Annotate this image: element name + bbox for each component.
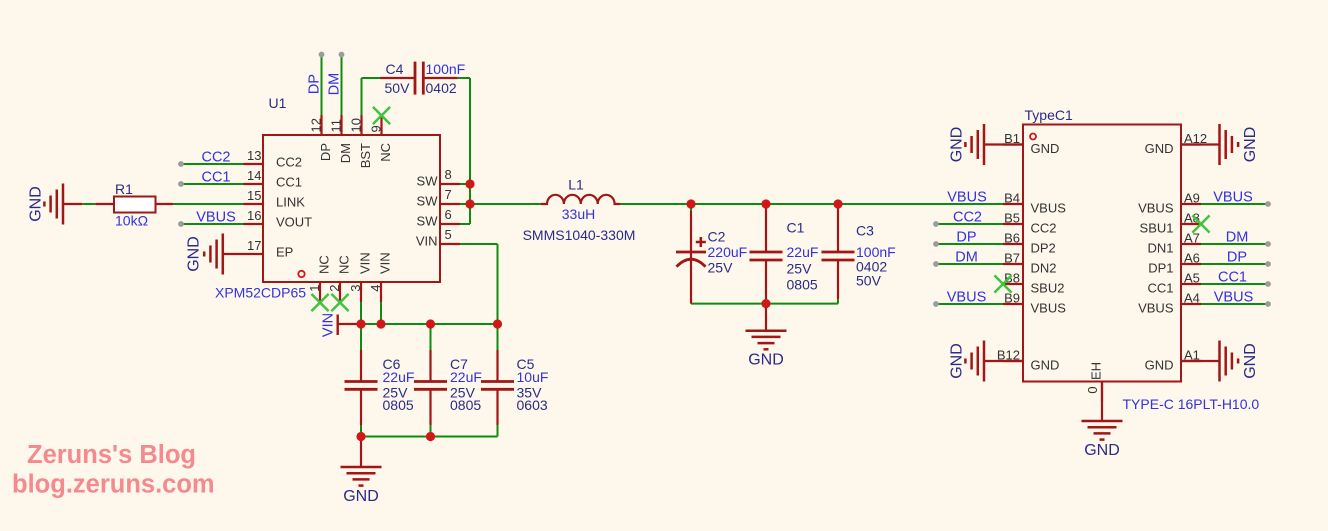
- wire VBUS to U1 pin 16 VOUT: [181, 223, 244, 225]
- svg-text:DM: DM: [338, 143, 353, 163]
- U1 bottom pin names NC NC VIN VIN: [317, 252, 393, 274]
- capacitor C5 10uF: [481, 324, 514, 437]
- C6 attr 25V: [383, 385, 409, 401]
- net label VIN anchor: [337, 315, 339, 336]
- svg-text:SW: SW: [417, 174, 439, 189]
- net label CC1 at U1 pin 14: [201, 170, 230, 186]
- svg-text:NC: NC: [317, 255, 332, 274]
- wire L1 to C2/C1/C3 bank and TypeC1 B4 VBUS: [621, 203, 1003, 205]
- svg-text:6: 6: [445, 207, 452, 222]
- C4 designator: [386, 61, 404, 77]
- ground at TypeC1 pin A1: [1181, 341, 1259, 382]
- net label VBUS at TypeC1 A4: [1214, 290, 1254, 306]
- svg-text:33uH: 33uH: [562, 206, 595, 222]
- net label VBUS at TypeC1 B4: [947, 190, 987, 206]
- svg-text:L1: L1: [568, 177, 584, 193]
- C2 designator: [708, 229, 726, 245]
- wire TypeC1 A5 CC1: [1201, 283, 1268, 285]
- svg-text:VBUS: VBUS: [1214, 290, 1254, 306]
- capacitor C4: [415, 62, 423, 95]
- svg-text:7: 7: [445, 187, 452, 202]
- C1 attr 25V: [787, 261, 813, 277]
- ground at TypeC1 pin B1: [948, 124, 1023, 165]
- svg-text:B6: B6: [1004, 231, 1020, 246]
- net label DP at TypeC1 B6: [956, 230, 976, 246]
- C7 designator: [450, 356, 468, 372]
- wire U1 pin 6 SW to node: [460, 223, 470, 225]
- wire R1 to U1 pin 15 LINK: [173, 203, 244, 205]
- svg-text:CC1: CC1: [276, 175, 302, 190]
- svg-text:9: 9: [369, 125, 384, 132]
- net label DM at U1 pin 11: [327, 73, 343, 96]
- C3 value 100nF: [856, 244, 896, 260]
- R1 designator: [115, 181, 133, 197]
- svg-text:EH: EH: [1089, 362, 1104, 380]
- svg-text:SW: SW: [417, 214, 439, 229]
- C5 attr 35V: [517, 385, 543, 401]
- svg-text:VIN: VIN: [416, 234, 438, 249]
- svg-text:GND: GND: [948, 127, 965, 163]
- U1 top pin numbers 12-9: [309, 118, 384, 132]
- svg-text:GND: GND: [1242, 343, 1259, 379]
- no-connect X at TypeC1 A8: [1192, 215, 1209, 232]
- TypeC1 shell pin number 0: [1085, 386, 1100, 393]
- C6 value 22uF: [383, 369, 415, 385]
- op-amp U1 XPM52CDP65 body: [243, 115, 460, 302]
- svg-text:VIN: VIN: [358, 252, 373, 274]
- svg-text:A4: A4: [1184, 291, 1200, 306]
- net label CC1 at TypeC1 A5: [1218, 270, 1247, 286]
- svg-text:GND: GND: [748, 352, 784, 369]
- svg-text:VBUS: VBUS: [1213, 190, 1253, 206]
- svg-text:SBU2: SBU2: [1031, 281, 1065, 296]
- C6 designator: [383, 356, 401, 372]
- svg-text:0805: 0805: [383, 397, 414, 413]
- C5 designator: [517, 356, 535, 372]
- svg-text:EP: EP: [276, 245, 293, 260]
- C4 attr 0402: [426, 80, 457, 96]
- net label VBUS at TypeC1 A9: [1213, 190, 1253, 206]
- wire C1 bank bottom rail: [691, 303, 838, 305]
- svg-text:DP1: DP1: [1148, 261, 1173, 276]
- svg-text:VBUS: VBUS: [947, 290, 987, 306]
- svg-text:8: 8: [445, 167, 452, 182]
- svg-text:LINK: LINK: [276, 195, 305, 210]
- svg-text:14: 14: [247, 168, 261, 183]
- svg-text:11: 11: [329, 119, 344, 133]
- svg-text:C2: C2: [708, 229, 726, 245]
- svg-text:10: 10: [349, 118, 364, 132]
- ground at TypeC1 pin A12: [1181, 124, 1259, 165]
- svg-text:GND: GND: [948, 343, 965, 379]
- svg-text:SBU1: SBU1: [1140, 221, 1174, 236]
- capacitor C7 22uF: [414, 324, 447, 437]
- svg-text:TypeC1: TypeC1: [1025, 107, 1073, 123]
- inductor L1: [541, 195, 621, 204]
- svg-text:GND: GND: [27, 186, 44, 222]
- svg-text:B12: B12: [997, 348, 1020, 363]
- U1 left pin names: [276, 155, 312, 260]
- svg-text:13: 13: [247, 148, 261, 163]
- svg-text:A1: A1: [1184, 348, 1200, 363]
- wire U1 pin 8 SW to node: [460, 183, 470, 185]
- TypeC1 right pin names: [1138, 141, 1174, 373]
- capacitor C3 100nF: [822, 204, 855, 304]
- wire CC1 to U1 pin 14: [181, 183, 244, 185]
- svg-text:2: 2: [327, 285, 342, 292]
- svg-text:R1: R1: [115, 181, 133, 197]
- svg-text:VBUS: VBUS: [1138, 201, 1174, 216]
- wire TypeC1 B9 VBUS: [936, 303, 1003, 305]
- wire TypeC1 A9 VBUS: [1201, 203, 1268, 205]
- svg-text:A9: A9: [1184, 191, 1200, 206]
- svg-text:DP: DP: [318, 143, 333, 161]
- svg-text:0402: 0402: [426, 80, 457, 96]
- svg-text:A6: A6: [1184, 251, 1200, 266]
- svg-text:A7: A7: [1184, 231, 1200, 246]
- svg-text:GND: GND: [1031, 358, 1060, 373]
- TypeC1 left pin numbers: [997, 131, 1020, 363]
- svg-text:B8: B8: [1004, 271, 1020, 286]
- watermark Zeruns's Blog: [12, 441, 215, 499]
- svg-text:GND: GND: [343, 488, 379, 505]
- wire GND to R1: [82, 203, 95, 205]
- resistor R1: [95, 197, 173, 213]
- svg-text:CC2: CC2: [276, 155, 302, 170]
- svg-text:VBUS: VBUS: [196, 210, 236, 226]
- net label DP at U1 pin 12: [307, 74, 323, 94]
- svg-text:GND: GND: [1145, 358, 1174, 373]
- svg-text:DM: DM: [955, 250, 978, 266]
- net label CC2 at TypeC1 B5: [953, 210, 982, 226]
- U1 part number XPM52CDP65: [215, 285, 306, 301]
- C7 attr 25V: [450, 385, 476, 401]
- capacitor C1 22uF: [750, 204, 783, 304]
- TypeC1 designator: [1025, 107, 1073, 123]
- svg-text:VBUS: VBUS: [1031, 201, 1067, 216]
- net label DP at TypeC1 A6: [1227, 250, 1247, 266]
- C7 attr 0805: [450, 397, 481, 413]
- svg-text:GND: GND: [1084, 442, 1120, 459]
- connector TypeC1 body: [1003, 125, 1201, 402]
- capacitor C2 220uF electrolytic: [676, 204, 706, 304]
- U1 right pin names SW/VIN: [416, 174, 438, 249]
- svg-text:C1: C1: [787, 220, 805, 236]
- svg-text:CC2: CC2: [953, 210, 982, 226]
- svg-text:B4: B4: [1004, 191, 1020, 206]
- C5 attr 0603: [517, 397, 548, 413]
- svg-text:VBUS: VBUS: [1138, 301, 1174, 316]
- svg-text:C4: C4: [386, 61, 404, 77]
- svg-text:GND: GND: [1242, 127, 1259, 163]
- svg-text:VIN: VIN: [320, 313, 336, 337]
- svg-text:25V: 25V: [708, 260, 734, 276]
- wire U1 pin 4 to VIN rail: [380, 302, 382, 324]
- svg-text:DP: DP: [1227, 250, 1247, 266]
- net label CC2 at U1 pin 13: [201, 150, 230, 166]
- svg-text:220uF: 220uF: [708, 244, 748, 260]
- svg-text:15: 15: [247, 188, 261, 203]
- svg-text:Zeruns's Blog: Zeruns's Blog: [27, 441, 196, 469]
- net label VBUS at U1 pin 16: [196, 210, 236, 226]
- wire TypeC1 B5 CC2: [936, 223, 1003, 225]
- wire C4 to SW node: [423, 78, 470, 224]
- U1 right pin numbers 8-5: [445, 167, 452, 242]
- wire U1 pin 3 to VIN rail: [360, 302, 362, 324]
- svg-text:NC: NC: [337, 255, 352, 274]
- svg-text:1: 1: [307, 285, 322, 292]
- wire C6 bank bottom rail: [361, 436, 498, 438]
- svg-text:17: 17: [247, 238, 261, 253]
- wire DP to U1 pin 12: [321, 55, 323, 116]
- svg-text:B7: B7: [1004, 251, 1020, 266]
- no-connect X at TypeC1 B8: [994, 275, 1011, 292]
- net label DM at TypeC1 B7: [955, 250, 978, 266]
- TypeC1 left pin names: [1031, 141, 1067, 373]
- U1 bottom pin numbers 1-4: [307, 285, 383, 292]
- svg-text:CC2: CC2: [201, 150, 230, 166]
- svg-text:4: 4: [368, 285, 383, 292]
- R1 value 10kΩ: [115, 213, 148, 229]
- svg-text:DN2: DN2: [1031, 261, 1057, 276]
- wire-end dots: [178, 52, 1271, 307]
- C1 value 22uF: [787, 244, 819, 260]
- no-connect X at U1 pin 1: [311, 294, 328, 311]
- U1 designator: [269, 95, 287, 111]
- svg-text:CC1: CC1: [201, 170, 230, 186]
- svg-text:100nF: 100nF: [426, 61, 466, 77]
- wire SW node to L1: [460, 203, 541, 205]
- svg-text:DP2: DP2: [1031, 241, 1056, 256]
- svg-text:22uF: 22uF: [383, 369, 415, 385]
- wire TypeC1 B7 DM: [936, 263, 1003, 265]
- svg-text:TYPE-C 16PLT-H10.0: TYPE-C 16PLT-H10.0: [1123, 396, 1260, 412]
- ground at TypeC1 pin B12: [948, 341, 1023, 382]
- ground at U1 EP pin 17: [186, 234, 263, 275]
- svg-text:B9: B9: [1004, 291, 1020, 306]
- ground at R1 left: [27, 184, 82, 225]
- net label VIN: [320, 313, 336, 337]
- C3 attr 0402: [856, 259, 887, 275]
- svg-text:10uF: 10uF: [517, 369, 549, 385]
- wire TypeC1 A6 DP: [1201, 263, 1268, 265]
- C3 designator: [856, 223, 874, 239]
- svg-text:25V: 25V: [787, 261, 813, 277]
- C6 attr 0805: [383, 397, 414, 413]
- svg-text:DN1: DN1: [1147, 241, 1173, 256]
- L1 part number SMMS1040-330M: [523, 227, 636, 243]
- svg-text:5: 5: [445, 227, 452, 242]
- svg-text:NC: NC: [378, 143, 393, 162]
- wire CC2 to U1 pin 13: [181, 163, 244, 165]
- svg-text:50V: 50V: [856, 273, 882, 289]
- C4 value 100nF: [426, 61, 466, 77]
- svg-text:SW: SW: [417, 194, 439, 209]
- C2 attr 25V: [708, 260, 734, 276]
- svg-text:22uF: 22uF: [787, 244, 819, 260]
- net label DM at TypeC1 A7: [1226, 230, 1249, 246]
- node VIN rail: [338, 323, 498, 325]
- svg-text:0603: 0603: [517, 397, 548, 413]
- TypeC1 part number TYPE-C 16PLT-H10.0: [1123, 396, 1260, 412]
- svg-text:10kΩ: 10kΩ: [115, 213, 148, 229]
- svg-text:22uF: 22uF: [450, 369, 482, 385]
- svg-text:CC2: CC2: [1031, 221, 1057, 236]
- svg-text:3: 3: [348, 285, 363, 292]
- C7 value 22uF: [450, 369, 482, 385]
- svg-text:50V: 50V: [385, 80, 411, 96]
- TypeC1 shell pin name EH: [1089, 362, 1104, 380]
- svg-text:C3: C3: [856, 223, 874, 239]
- svg-text:A5: A5: [1184, 271, 1200, 286]
- wire TypeC1 A7 DM: [1201, 243, 1268, 245]
- svg-text:SMMS1040-330M: SMMS1040-330M: [523, 227, 636, 243]
- no-connect X at U1 pin 2: [331, 294, 348, 311]
- wire TypeC1 B6 DP: [936, 243, 1003, 245]
- capacitor C6 22uF: [345, 324, 378, 437]
- svg-text:VBUS: VBUS: [1031, 301, 1067, 316]
- svg-text:0805: 0805: [450, 397, 481, 413]
- C1 attr 0805: [787, 277, 818, 293]
- C2 value 220uF: [708, 244, 748, 260]
- svg-text:A8: A8: [1184, 211, 1200, 226]
- no-connect X at U1 pin 9: [373, 107, 390, 124]
- wire U1 pin 5 VIN to C5 branch: [460, 244, 498, 324]
- svg-text:BST: BST: [358, 143, 373, 168]
- junction dots: [356, 179, 842, 441]
- net label VBUS at TypeC1 B9: [947, 290, 987, 306]
- svg-text:A12: A12: [1184, 131, 1207, 146]
- ground below C1 bank: [746, 304, 787, 369]
- wire TypeC1 A4 VBUS: [1201, 303, 1268, 305]
- svg-text:16: 16: [247, 208, 261, 223]
- svg-text:VOUT: VOUT: [276, 215, 312, 230]
- svg-text:12: 12: [309, 118, 324, 132]
- svg-text:GND: GND: [1145, 141, 1174, 156]
- svg-text:blog.zeruns.com: blog.zeruns.com: [12, 471, 215, 499]
- ground below C6 bank: [341, 437, 382, 506]
- U1 top pin names DP DM BST NC: [318, 143, 393, 168]
- C1 designator: [787, 220, 805, 236]
- svg-text:B5: B5: [1004, 211, 1020, 226]
- svg-text:0805: 0805: [787, 277, 818, 293]
- svg-text:CC1: CC1: [1218, 270, 1247, 286]
- svg-text:DP: DP: [307, 74, 323, 94]
- svg-text:0: 0: [1085, 386, 1100, 393]
- wire DM to U1 pin 11: [341, 55, 343, 116]
- svg-text:XPM52CDP65: XPM52CDP65: [215, 285, 306, 301]
- C3 attr 50V: [856, 273, 882, 289]
- svg-text:DM: DM: [1226, 230, 1249, 246]
- svg-text:GND: GND: [186, 236, 203, 272]
- svg-text:B1: B1: [1004, 131, 1020, 146]
- wire U1 pin 10 BST to C4: [362, 78, 416, 115]
- ground below TypeC1 shell pin: [1082, 382, 1123, 460]
- svg-text:DM: DM: [327, 73, 343, 96]
- svg-text:CC1: CC1: [1147, 281, 1173, 296]
- svg-text:VBUS: VBUS: [947, 190, 987, 206]
- svg-text:U1: U1: [269, 95, 287, 111]
- C5 value 10uF: [517, 369, 549, 385]
- TypeC1 right pin numbers: [1184, 131, 1207, 363]
- U1 left pin numbers 13-17: [247, 148, 261, 253]
- svg-text:DP: DP: [956, 230, 976, 246]
- svg-text:GND: GND: [1031, 141, 1060, 156]
- L1 value 33uH: [562, 206, 595, 222]
- C4 attr 50V: [385, 80, 411, 96]
- L1 designator: [568, 177, 584, 193]
- svg-text:VIN: VIN: [378, 252, 393, 274]
